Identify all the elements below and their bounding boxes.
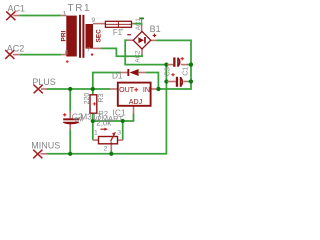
svg-text:D1: D1 [112,72,123,81]
svg-text:1: 1 [94,129,98,136]
svg-text:C3: C3 [164,67,171,76]
svg-text:IN: IN [143,86,150,94]
svg-text:ADJ: ADJ [129,98,143,106]
svg-text:MINUS: MINUS [31,141,60,151]
svg-text:220: 220 [84,93,91,105]
svg-text:AC1: AC1 [135,18,142,31]
svg-text:6: 6 [65,49,69,56]
svg-text:B1: B1 [150,24,161,34]
svg-text:9: 9 [92,17,96,24]
svg-text:1: 1 [63,10,67,17]
svg-text:SEC: SEC [96,29,103,43]
svg-text:AC1: AC1 [8,4,26,14]
svg-text:2: 2 [104,145,108,152]
svg-text:R3: R3 [98,94,105,103]
svg-text:TR1: TR1 [68,3,92,14]
svg-text:PRI: PRI [60,30,67,41]
svg-text:PLUS: PLUS [32,77,56,87]
svg-text:OUT: OUT [119,86,135,94]
svg-text:AC2: AC2 [135,50,142,63]
svg-text:2M: 2M [75,116,84,123]
svg-text:AC2: AC2 [7,44,25,54]
svg-text:3: 3 [117,129,121,136]
svg-text:7: 7 [87,47,91,54]
svg-text:2,0k: 2,0k [96,118,111,127]
svg-text:+: + [120,28,123,34]
svg-text:C1: C1 [183,67,190,76]
